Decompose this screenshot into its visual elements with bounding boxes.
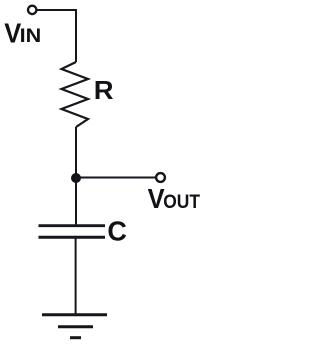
node (junction dot) (71, 173, 81, 183)
wire: node to output terminal (76, 177, 155, 179)
wire: resistor bottom to node (75, 127, 77, 178)
svg-text:C: C (107, 215, 127, 246)
output terminal (open circle) (156, 173, 165, 182)
capacitor C bottom plate (39, 236, 106, 239)
ground bar 2 (58, 325, 93, 328)
resistor R (62, 62, 89, 127)
wire: node to capacitor (75, 178, 77, 224)
ground bar 3 (70, 336, 81, 339)
ground bar 1 (42, 313, 107, 316)
wire: input terminal to resistor top (37, 10, 76, 62)
svg-text:IN: IN (20, 26, 42, 47)
svg-text:R: R (94, 75, 114, 105)
wire: capacitor to ground (75, 239, 77, 315)
svg-text:OUT: OUT (163, 192, 200, 213)
input terminal (open circle) (28, 6, 36, 14)
capacitor C top plate (39, 224, 106, 227)
